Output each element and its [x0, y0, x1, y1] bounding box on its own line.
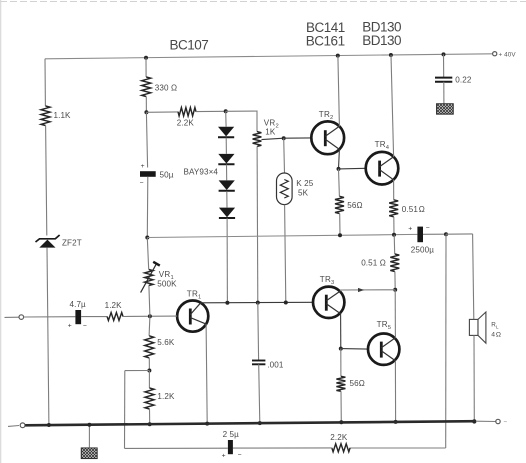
wire 2.2K to diode chain top: [196, 110, 226, 112]
label RL value: [491, 331, 501, 338]
wire diode chain interlinks: [226, 111, 227, 207]
resistor 1.2K lower: [145, 388, 154, 409]
wire TR1 base node to 5.6K: [148, 316, 151, 336]
scan border top: [0, 1, 526, 3]
svg-text:−: −: [426, 225, 430, 232]
capacitor 50u: [140, 171, 156, 177]
wire 1.2K lower to bottom rail: [149, 409, 151, 424]
svg-text:.001: .001: [267, 361, 284, 370]
svg-text:TR5: TR5: [377, 320, 392, 331]
node thermistor bottom junction: [284, 301, 288, 305]
label VR1: [159, 270, 174, 281]
svg-text:BAY93×4: BAY93×4: [184, 168, 219, 177]
transistor TR3: [313, 287, 344, 318]
node rail junction at TR4 collector: [389, 53, 393, 57]
svg-text:BD130: BD130: [362, 33, 401, 48]
wire .001 cap to bottom rail: [259, 364, 260, 423]
capacitor 25u: [228, 440, 233, 454]
label 2.2K feedback value: [330, 433, 348, 442]
node TR2 emitter junction: [337, 167, 341, 171]
label BC161: [306, 33, 345, 48]
capacitor 2500u: [417, 227, 423, 243]
svg-text:BC161: BC161: [306, 33, 345, 48]
capacitor 4.7u polarity plus: [68, 323, 72, 330]
label TR5: [377, 320, 392, 331]
label RL: [491, 322, 499, 330]
resistor 56R upper: [335, 196, 344, 213]
thermistor K25 5K: [277, 173, 293, 205]
label VR1 value: [157, 279, 177, 288]
capacitor 4.7u: [75, 310, 81, 324]
wire TR5 emitter to bottom rail: [394, 361, 396, 422]
label BC107: [170, 38, 209, 53]
label K25: [296, 179, 313, 188]
svg-text:BC107: BC107: [170, 38, 209, 53]
wire 1.1K to zener: [46, 126, 47, 236]
svg-text:2 5µ: 2 5µ: [223, 430, 240, 439]
wire 2500u to output node: [423, 233, 446, 235]
resistor 1.2K input: [107, 313, 123, 321]
svg-text:500K: 500K: [157, 279, 177, 288]
svg-text:K 25: K 25: [296, 179, 313, 188]
resistor 0.51R upper: [389, 200, 398, 217]
svg-text:1.2K: 1.2K: [105, 301, 123, 310]
node TR2 base junction: [282, 136, 286, 140]
svg-text:1.1K: 1.1K: [54, 111, 72, 120]
label 0.51R upper value: [402, 205, 425, 214]
wire feedback 2.2K to 25u cap: [233, 447, 332, 449]
svg-text:0.22: 0.22: [455, 75, 472, 84]
wire zener to bottom rail: [47, 248, 49, 425]
capacitor 0.22: [435, 78, 452, 82]
svg-text:4.7µ: 4.7µ: [70, 300, 87, 309]
label 0.51R lower value: [361, 258, 386, 267]
svg-text:TR2: TR2: [319, 110, 334, 121]
wire mid node down to VR1: [147, 238, 148, 270]
wire 330R to bias node: [145, 97, 147, 113]
svg-text:2500µ: 2500µ: [411, 245, 434, 254]
label 50u value: [160, 170, 174, 179]
wire speaker to bottom rail: [473, 335, 475, 421]
resistor 5.6K: [145, 336, 154, 358]
svg-text:2.2K: 2.2K: [177, 118, 195, 127]
label ZF2T: [62, 238, 82, 247]
node TR1 base junction: [148, 314, 152, 318]
svg-text:4 Ω: 4 Ω: [491, 331, 501, 338]
node rail junction at 330R branch: [144, 56, 148, 60]
capacitor 50u polarity minus: [140, 180, 144, 187]
label 2500u value: [411, 245, 434, 254]
label BC141: [306, 20, 345, 35]
wire TR3 emitter node to 56R lower: [340, 349, 342, 377]
wire TR3 emitter down: [340, 314, 342, 349]
svg-text:TR1: TR1: [187, 289, 202, 300]
label TR2: [319, 110, 334, 121]
svg-text:BD130: BD130: [362, 19, 401, 34]
wire rail to 330R: [145, 58, 147, 77]
svg-text:ZF2T: ZF2T: [62, 238, 82, 247]
resistor 330R: [142, 77, 151, 97]
label VR2 value: [265, 128, 276, 137]
scan border left: [0, 0, 2, 463]
wire bottom 0V stub: [8, 425, 19, 428]
wire feedback bottom run: [350, 447, 446, 449]
label .001 value: [267, 361, 284, 370]
label 0.22 value: [455, 75, 472, 84]
resistor VR1 500K: [145, 270, 153, 286]
wire left branch from rail down to 1.1K: [44, 59, 46, 106]
label BAY93x4: [184, 168, 219, 177]
node mid-left junction feed wire: [145, 236, 149, 240]
wire output node to speaker drop: [446, 233, 473, 235]
wire 4.7u to 1.2K: [81, 316, 107, 318]
wire thermistor down to TR1 collector node: [285, 205, 286, 303]
node 56R bottom junction: [338, 233, 342, 237]
wire diode top to VR2 top: [226, 111, 257, 132]
label 1.1K value: [54, 111, 72, 120]
capacitor 25u polarity plus: [222, 453, 226, 460]
wire 0.22 cap to ground: [443, 82, 445, 104]
label 1.2K input value: [105, 301, 123, 310]
wire bias node down to 50u cap: [146, 112, 147, 167]
svg-text:56Ω: 56Ω: [350, 379, 365, 388]
node diode bottom junction: [225, 301, 229, 305]
label 56R upper value: [347, 201, 362, 210]
speaker RL 4ohm: [469, 312, 486, 343]
label 2.2K bias value: [177, 118, 195, 127]
wire VR1 to TR1 base node: [149, 286, 150, 317]
label VR2: [264, 118, 279, 129]
zener ZF2T: [36, 235, 60, 248]
node left branch rail junction: [47, 423, 51, 427]
node TR1 emitter rail junction: [205, 422, 209, 426]
svg-text:5.6K: 5.6K: [157, 338, 175, 347]
svg-text:RL: RL: [491, 322, 499, 330]
wire ground stub: [88, 425, 90, 448]
label TR4: [375, 140, 390, 151]
svg-text:1.2K: 1.2K: [157, 392, 175, 401]
node .001 rail junction: [258, 421, 262, 425]
label 0V minus: [503, 419, 507, 426]
terminal 0V output: [496, 419, 500, 423]
wire 1.2K to TR1 base: [123, 315, 177, 317]
resistor 56R lower: [336, 376, 345, 391]
resistor 2.2K bias: [178, 108, 196, 116]
ground main: [81, 448, 97, 459]
node feedback junction: [147, 369, 151, 373]
node bias top junction: [144, 110, 148, 114]
resistor 1.1K: [41, 106, 50, 126]
label 25u value: [223, 430, 240, 439]
svg-text:50µ: 50µ: [160, 170, 174, 179]
wire TR3 emitter node to TR5 base: [341, 348, 368, 351]
node 56R lower rail junction: [339, 420, 343, 424]
wire VR2 bottom down to TR1 collector node: [256, 146, 259, 302]
wire bias node to 2.2K: [146, 111, 178, 113]
label 4.7u value: [70, 300, 87, 309]
wire top +40V supply rail: [45, 54, 493, 59]
svg-text:5K: 5K: [298, 188, 309, 197]
node output junction after cap: [444, 232, 448, 236]
wire VR2 bottom node to .001 cap: [257, 303, 260, 361]
wire 56R to mid wire: [339, 214, 341, 236]
wire diode chain bottom to TR1 collector node: [226, 218, 228, 303]
terminal input: [19, 315, 24, 320]
label 56R lower value: [350, 379, 365, 388]
svg-text:56Ω: 56Ω: [347, 201, 362, 210]
diode D4 BAY93: [219, 208, 235, 218]
node rail junction at 0.22 cap: [442, 52, 446, 56]
label 5.6K value: [157, 338, 175, 347]
transistor TR2: [311, 121, 344, 154]
wire TR2 emitter node to TR4 base: [339, 167, 366, 170]
capacitor 50u polarity plus: [141, 163, 145, 170]
wire input stub: [5, 316, 20, 318]
wire 50u cap to mid node: [146, 177, 149, 238]
label 330R value: [155, 83, 177, 92]
transistor TR1: [177, 301, 208, 332]
svg-text:1K: 1K: [265, 128, 276, 137]
transistor TR4: [366, 152, 399, 185]
wire TR1 emitter to bottom rail: [206, 324, 207, 424]
wire riser to feedback node: [125, 370, 150, 372]
wire output node down to feedback: [445, 234, 447, 448]
terminal input ground 0V: [20, 423, 25, 428]
transistor TR5: [368, 334, 399, 365]
capacitor 2500u polarity minus: [426, 225, 430, 232]
node VR2 bottom junction: [256, 301, 260, 305]
resistor VR2 1K preset: [253, 132, 262, 147]
wire 0.51 node to lower 0.51R: [393, 235, 396, 254]
terminal +40V supply: [493, 52, 497, 56]
capacitor .001: [252, 361, 265, 365]
wire TR2 base node down to thermistor: [283, 138, 286, 173]
variable arrow VR1: [141, 262, 160, 293]
label +40V: [499, 52, 517, 59]
wire TR3 collector to TR5 collector node: [340, 290, 395, 291]
svg-text:+: +: [141, 163, 145, 170]
svg-text:−: −: [140, 180, 144, 187]
svg-text:TR3: TR3: [320, 275, 335, 286]
diode D3 BAY93: [219, 180, 235, 190]
node rail junction at TR2 collector: [336, 54, 340, 58]
label 1.2K lower value: [157, 392, 175, 401]
wire TR2 collector to rail: [338, 56, 340, 127]
capacitor 2500u polarity plus: [408, 225, 412, 232]
node TR3 emitter junction: [339, 347, 343, 351]
wire TR4 emitter to 0.51R: [393, 180, 395, 200]
svg-text:+: +: [222, 453, 226, 460]
wire VR2 wiper to TR2 base node: [262, 138, 284, 139]
label TR1: [187, 289, 202, 300]
wire feedback node to 1.2K: [148, 371, 150, 389]
svg-text:+ 40V: + 40V: [499, 52, 517, 59]
svg-text:330 Ω: 330 Ω: [155, 83, 177, 92]
svg-text:TR4: TR4: [375, 140, 390, 151]
wire 5.6K to feedback node: [148, 358, 150, 371]
svg-text:0.51 Ω: 0.51 Ω: [361, 258, 386, 267]
svg-text:+: +: [68, 323, 72, 330]
resistor 2.2K feedback: [332, 444, 350, 452]
node TR5 collector junction: [393, 288, 397, 292]
svg-text:0.51 Ω: 0.51 Ω: [402, 205, 425, 214]
arrow on TR3 collector wire: [358, 288, 364, 292]
node 1.2K rail junction: [148, 422, 152, 426]
wire TR4 collector to rail: [391, 55, 394, 157]
node speaker rail junction: [472, 419, 476, 423]
wire rail to 0V terminal: [476, 420, 496, 422]
label BD130 upper: [362, 19, 401, 34]
wire lower 0.51R to TR5 collector node: [394, 272, 396, 290]
ground at 0.22 cap: [437, 104, 454, 115]
label TR3: [320, 275, 335, 286]
wire 56R lower to bottom rail: [340, 391, 342, 422]
svg-text:2.2K: 2.2K: [330, 433, 348, 442]
svg-text:+: +: [408, 225, 412, 232]
node ground stub rail junction: [87, 423, 91, 427]
wire feedback left riser: [124, 371, 126, 449]
wire mid output feed: [147, 234, 417, 237]
wire TR2 emitter down: [338, 149, 341, 169]
capacitor 25u polarity minus: [238, 452, 242, 459]
diode D1 BAY93: [218, 127, 234, 137]
node diode chain top junction: [224, 109, 228, 113]
svg-text:−: −: [238, 452, 242, 459]
wire 25u cap to left riser: [125, 447, 228, 449]
wire output to speaker: [473, 234, 474, 319]
wire 0.51R to mid node: [393, 217, 395, 235]
wire TR1 collector bus: [201, 301, 313, 304]
capacitor 4.7u polarity minus: [83, 322, 87, 329]
wire rail to 0.22 cap: [443, 54, 445, 77]
diode D2 BAY93: [218, 154, 234, 164]
node TR5 emitter rail junction: [394, 420, 398, 424]
wire TR2 base node to TR2: [284, 137, 312, 139]
wire bottom 0V rail: [25, 421, 476, 425]
svg-text:−: −: [83, 322, 87, 329]
node 0.51R junction: [392, 233, 396, 237]
label 5K: [298, 188, 309, 197]
wire TR2 emitter node to 56R: [338, 169, 341, 196]
wire TR5 collector up: [394, 290, 396, 338]
resistor 0.51R lower: [390, 254, 399, 272]
wire input terminal to 4.7u: [24, 316, 76, 318]
svg-text:−: −: [503, 419, 507, 426]
label BD130 lower: [362, 33, 401, 48]
